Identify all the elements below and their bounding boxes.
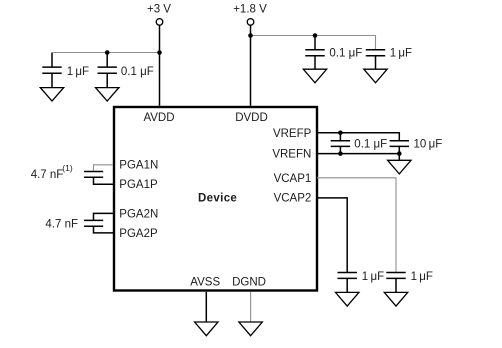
svg-text:4.7 nF: 4.7 nF bbox=[31, 169, 64, 181]
svg-text:1 μF: 1 μF bbox=[362, 271, 384, 283]
svg-text:10 μF: 10 μF bbox=[414, 139, 443, 151]
svg-text:DVDD: DVDD bbox=[235, 112, 268, 124]
svg-text:PGA2P: PGA2P bbox=[119, 228, 158, 240]
svg-text:PGA2N: PGA2N bbox=[119, 208, 158, 220]
svg-text:(1): (1) bbox=[62, 163, 73, 173]
svg-text:0.1 μF: 0.1 μF bbox=[354, 139, 387, 151]
svg-text:1 μF: 1 μF bbox=[411, 271, 433, 283]
svg-text:AVDD: AVDD bbox=[143, 112, 174, 124]
svg-text:DGND: DGND bbox=[232, 277, 266, 289]
svg-text:VREFN: VREFN bbox=[272, 148, 311, 160]
svg-text:PGA1N: PGA1N bbox=[119, 160, 158, 172]
svg-text:+3 V: +3 V bbox=[147, 4, 171, 16]
svg-text:VCAP2: VCAP2 bbox=[274, 193, 312, 205]
svg-text:VCAP1: VCAP1 bbox=[274, 173, 312, 185]
svg-text:Device: Device bbox=[198, 193, 237, 205]
svg-text:AVSS: AVSS bbox=[190, 277, 220, 289]
svg-text:0.1 μF: 0.1 μF bbox=[121, 66, 154, 78]
svg-text:+1.8 V: +1.8 V bbox=[233, 4, 267, 16]
svg-text:VREFP: VREFP bbox=[273, 128, 312, 140]
svg-text:PGA1P: PGA1P bbox=[119, 179, 158, 191]
svg-text:1 μF: 1 μF bbox=[67, 66, 89, 78]
svg-text:1 μF: 1 μF bbox=[390, 48, 412, 60]
svg-text:0.1 μF: 0.1 μF bbox=[329, 48, 362, 60]
svg-text:4.7 nF: 4.7 nF bbox=[45, 219, 78, 231]
